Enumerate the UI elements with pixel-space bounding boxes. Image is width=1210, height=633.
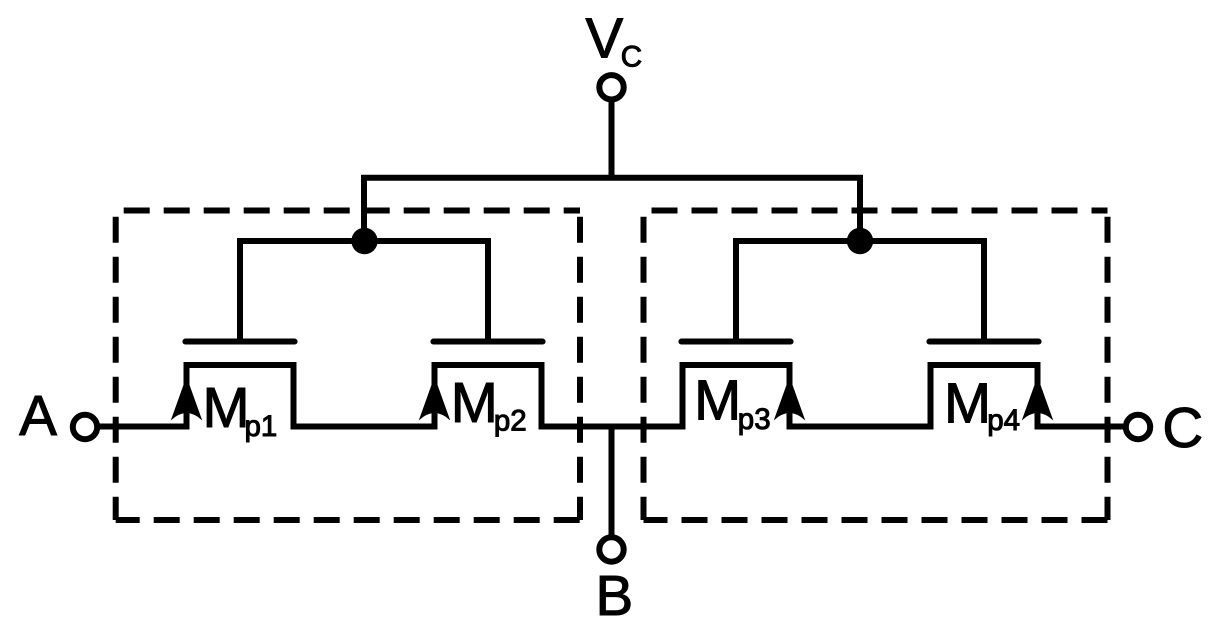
wire right gate rail (733, 238, 987, 244)
svg-text:p3: p3 (738, 403, 771, 436)
wire B stem (609, 424, 615, 536)
svg-text:C: C (621, 41, 642, 74)
transistor Mp1 gate stem (237, 241, 243, 342)
transistor Mp1 gate bar (185, 339, 294, 345)
terminal A (73, 415, 97, 439)
wire C lead (1035, 424, 1123, 430)
svg-text:p2: p2 (494, 405, 527, 438)
terminal B (599, 537, 623, 561)
svg-text:C: C (1162, 396, 1203, 459)
transistor Mp2 gate stem (485, 241, 491, 342)
wire Mp1 to Mp2 (291, 424, 438, 430)
wire A lead (99, 424, 189, 430)
terminal C (1126, 415, 1150, 439)
terminal VC (599, 75, 623, 99)
label V_C (586, 6, 643, 73)
svg-text:A: A (19, 384, 57, 447)
node right gate junction (847, 228, 873, 254)
label Mp4 (944, 371, 1020, 437)
transistor Mp1 source arrow (171, 377, 203, 421)
transistor Mp4 gate stem (981, 241, 987, 342)
wire left gate rail (237, 238, 491, 244)
transistor Mp4 channel (931, 365, 1038, 429)
wire VC stem (609, 100, 615, 181)
transistor Mp2 source arrow (419, 377, 451, 421)
wire Mp3 to Mp4 (787, 424, 934, 430)
svg-text:M: M (694, 368, 741, 431)
transistor Mp1 channel (187, 365, 294, 429)
svg-text:M: M (944, 371, 991, 434)
label Mp2 (451, 371, 527, 438)
enclosure box left (dashed) (116, 211, 580, 521)
svg-text:M: M (451, 371, 498, 434)
svg-text:B: B (596, 564, 634, 627)
svg-text:p1: p1 (245, 410, 278, 443)
label Mp1 (203, 376, 278, 443)
transistor Mp4 source arrow (1022, 377, 1054, 421)
transistor Mp4 gate bar (929, 339, 1038, 345)
svg-text:p4: p4 (987, 404, 1020, 437)
label Mp3 (694, 368, 771, 436)
transistor Mp2 gate bar (433, 339, 542, 345)
transistor Mp2 channel (435, 365, 542, 429)
wire Mp2 to Mp3 with B junction (539, 424, 686, 430)
wire control bus (364, 178, 860, 244)
transistor Mp3 gate stem (733, 241, 739, 342)
enclosure box right (dashed) (644, 211, 1108, 521)
svg-text:V: V (586, 6, 624, 69)
svg-text:M: M (203, 376, 250, 439)
transistor Mp3 channel (683, 365, 790, 429)
node left gate junction (351, 228, 377, 254)
transistor Mp3 source arrow (774, 377, 806, 421)
transistor Mp3 gate bar (681, 339, 790, 345)
